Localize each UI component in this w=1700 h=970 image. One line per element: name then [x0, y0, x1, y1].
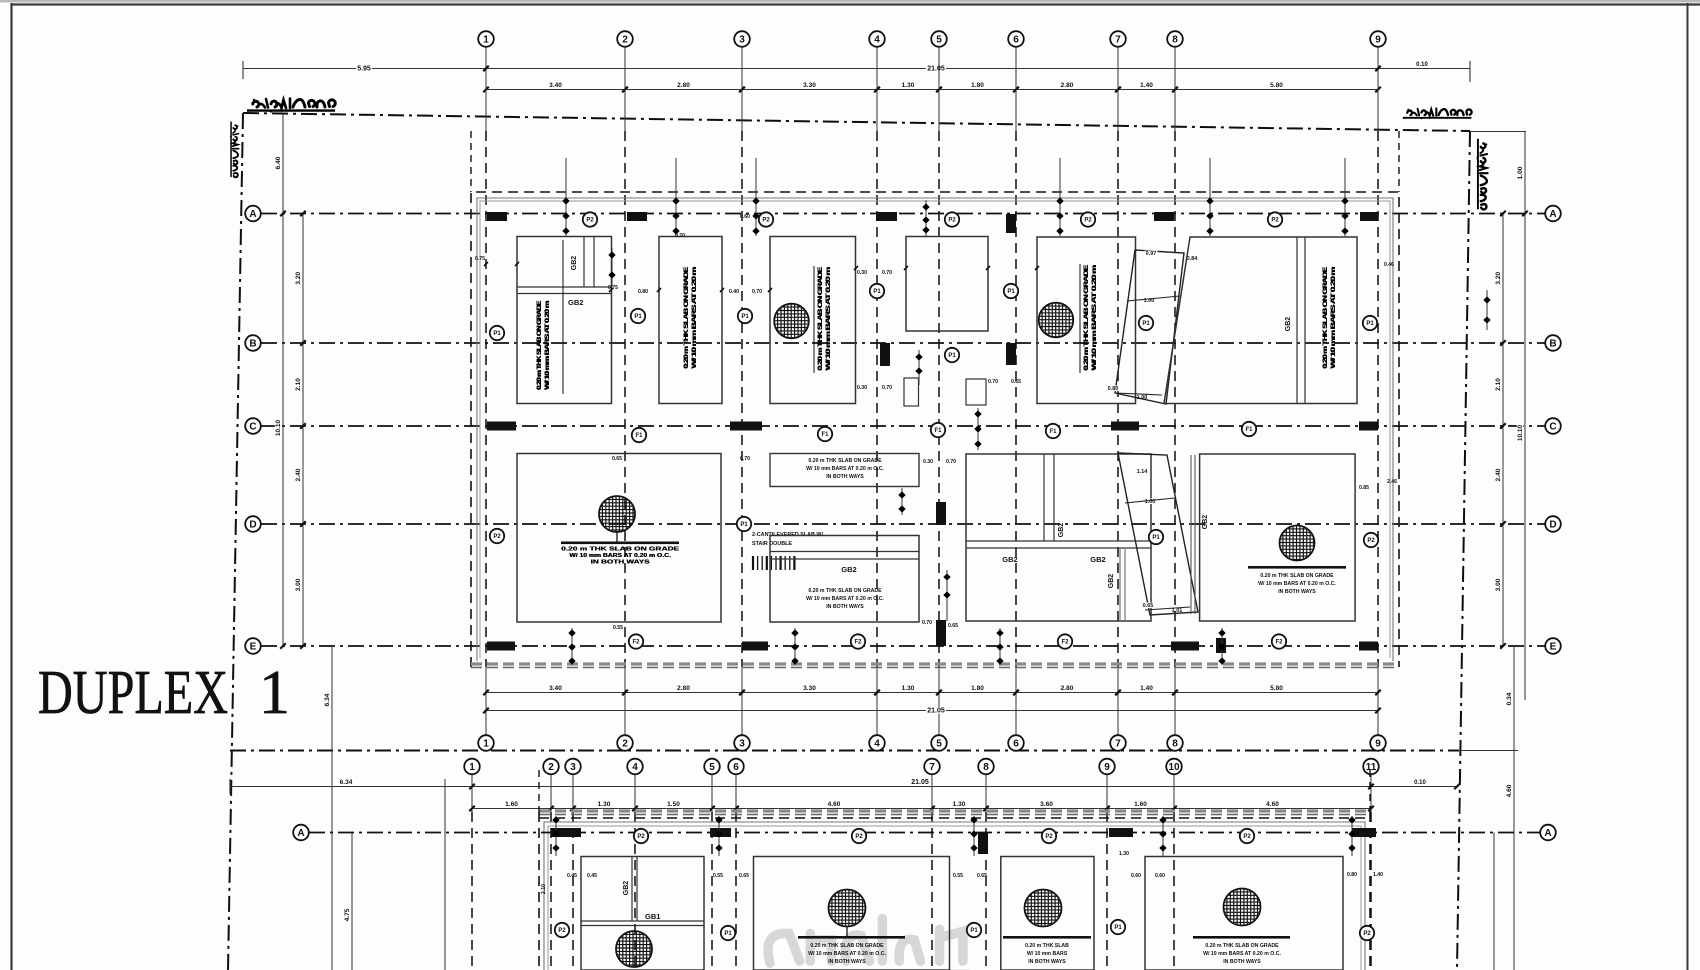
svg-text:0.20 m THK SLAB ON GRADE: 0.20 m THK SLAB ON GRADE	[817, 266, 824, 370]
left dim text 10.10	[275, 419, 282, 438]
svg-text:0.70: 0.70	[882, 385, 892, 391]
L1 column hatch	[599, 496, 635, 532]
svg-text:2.80: 2.80	[1061, 82, 1074, 89]
tick stacks plan1 bottom	[571, 628, 573, 665]
svg-text:5: 5	[709, 762, 715, 773]
svg-text:10.10: 10.10	[275, 419, 282, 436]
svg-text:0.70: 0.70	[752, 289, 762, 295]
plan2 top gray dashed band	[539, 809, 1370, 812]
page frame left border	[10, 3, 12, 970]
R6 note column	[1322, 266, 1337, 369]
svg-text:0.20 m THK SLAB ON GRADE: 0.20 m THK SLAB ON GRADE	[808, 588, 882, 594]
R1 beam GB2 horizontal	[517, 286, 611, 288]
dim text 21.05 bottom	[926, 707, 946, 714]
svg-text:0.55: 0.55	[713, 873, 723, 879]
svg-text:F1: F1	[821, 432, 829, 438]
stair inner line	[1127, 296, 1180, 301]
vertical grid lines bottom plan	[471, 775, 473, 813]
svg-text:21.05: 21.05	[911, 779, 929, 786]
footing RD6	[1200, 454, 1356, 621]
horizontal grids A-E with bubbles	[261, 213, 1545, 215]
svg-text:4.60: 4.60	[1506, 784, 1513, 797]
svg-text:21.05: 21.05	[927, 708, 945, 715]
plan1 bottom gray dashed band	[471, 662, 1399, 665]
svg-text:0.60: 0.60	[1155, 214, 1165, 220]
wall marks on grid C	[487, 422, 516, 431]
svg-text:1.80: 1.80	[971, 82, 984, 89]
svg-text:P1: P1	[1366, 321, 1374, 327]
footing F4b	[1145, 857, 1343, 970]
svg-text:2.40: 2.40	[1495, 468, 1502, 481]
svg-text:GB2: GB2	[1002, 555, 1017, 564]
tick stacks plan2 top	[555, 816, 557, 856]
svg-text:3.30: 3.30	[803, 685, 816, 692]
svg-text:P2: P2	[1363, 931, 1371, 937]
svg-text:0.30: 0.30	[923, 459, 933, 465]
footing R6	[1164, 237, 1357, 404]
svg-text:3: 3	[739, 739, 745, 750]
R5 note line	[1079, 264, 1081, 373]
svg-text:P1: P1	[740, 522, 748, 528]
F2 bubbles on grid E	[629, 634, 643, 648]
small ticks plan1	[484, 262, 488, 266]
footing R2	[659, 237, 722, 404]
svg-text:3.30: 3.30	[803, 82, 816, 89]
svg-text:2.80: 2.80	[677, 82, 690, 89]
svg-text:F1: F1	[635, 433, 643, 439]
slant2 dims	[1136, 469, 1149, 475]
footing R4	[906, 237, 988, 332]
footing R1	[517, 237, 612, 404]
svg-text:6.34: 6.34	[324, 693, 331, 706]
svg-text:GB2: GB2	[623, 881, 630, 896]
svg-text:0.45: 0.45	[587, 873, 597, 879]
svg-text:GB2: GB2	[1108, 574, 1115, 589]
svg-text:GB2: GB2	[1090, 555, 1105, 564]
svg-text:0.55: 0.55	[953, 873, 963, 879]
svg-text:0.46: 0.46	[1384, 262, 1394, 268]
R2 note column	[683, 266, 698, 369]
svg-text:P1: P1	[1007, 289, 1015, 295]
svg-text:1: 1	[483, 35, 489, 46]
svg-text:7: 7	[929, 762, 935, 773]
grid bubbles row2 1-11	[464, 759, 480, 775]
svg-text:3.00: 3.00	[1495, 578, 1502, 591]
svg-text:2.10: 2.10	[295, 378, 302, 391]
svg-text:5.80: 5.80	[1270, 685, 1283, 692]
svg-text:0.85: 0.85	[1359, 485, 1369, 491]
footing R3	[770, 237, 856, 404]
svg-text:0.75: 0.75	[475, 256, 485, 262]
arabic label right rotated	[1476, 139, 1487, 210]
plan1 inner double line	[477, 198, 1393, 661]
svg-text:0.20 m THK SLAB ON GRADE: 0.20 m THK SLAB ON GRADE	[1083, 264, 1090, 370]
right dim seg texts	[1495, 271, 1502, 286]
svg-text:8: 8	[983, 762, 989, 773]
R5 column hatch	[1039, 303, 1074, 338]
P2 bubbles plan2 A	[634, 829, 648, 843]
svg-text:6.34: 6.34	[340, 779, 353, 786]
svg-text:P1: P1	[1152, 535, 1160, 541]
svg-text:0.20 m THK SLAB ON GRADE: 0.20 m THK SLAB ON GRADE	[1322, 266, 1329, 368]
svg-text:4: 4	[874, 35, 880, 46]
overall dim line top	[243, 68, 1470, 70]
svg-text:IN BOTH WAYS: IN BOTH WAYS	[826, 474, 864, 480]
segment dim line bottom	[486, 692, 1378, 694]
left dim seg texts	[295, 271, 302, 286]
right dim line upper	[1524, 132, 1526, 701]
right dim text 10.10	[1517, 424, 1524, 443]
svg-text:GB2: GB2	[1285, 317, 1292, 332]
svg-text:0.20 m THK SLAB ON GRADE: 0.20 m THK SLAB ON GRADE	[810, 943, 884, 949]
note rect top	[770, 454, 919, 487]
footing F2b	[754, 857, 950, 970]
svg-text:3.40: 3.40	[549, 685, 562, 692]
2x2 vertical gray	[1119, 548, 1121, 621]
svg-text:4.75: 4.75	[344, 908, 351, 921]
overall dim line bottom	[486, 710, 1378, 712]
svg-text:3: 3	[570, 762, 576, 773]
svg-text:D: D	[249, 520, 256, 531]
F3b note	[1003, 936, 1091, 939]
RD6 note	[1248, 566, 1346, 569]
svg-text:0.60: 0.60	[1155, 873, 1165, 879]
svg-text:0.80: 0.80	[638, 289, 648, 295]
svg-text:2: 2	[548, 762, 554, 773]
svg-text:1.40: 1.40	[1373, 872, 1383, 878]
footing F1b	[581, 857, 704, 970]
svg-text:0.70: 0.70	[946, 459, 956, 465]
plan2 grid A line	[309, 832, 1540, 834]
property boundary mid horizontal	[230, 750, 1459, 752]
svg-text:4: 4	[874, 739, 880, 750]
svg-text:0.40: 0.40	[729, 289, 739, 295]
svg-text:6: 6	[733, 762, 739, 773]
plan1 outline dashed	[471, 192, 1399, 667]
dim text 5.95	[356, 65, 372, 72]
R5 note column	[1083, 264, 1098, 371]
svg-text:0.97: 0.97	[1146, 251, 1157, 257]
right E-boundary dim line	[1513, 646, 1515, 970]
F4b note	[1193, 936, 1290, 939]
2x2 horizontal beams	[966, 540, 1151, 542]
right dim ticks	[1500, 211, 1506, 217]
F2b stem	[846, 927, 848, 937]
svg-text:P1: P1	[493, 331, 501, 337]
dim text 21.05 plan2	[910, 778, 930, 785]
arabic label top-right	[1403, 108, 1472, 119]
svg-text:0.55: 0.55	[613, 625, 623, 631]
page frame right border	[1687, 3, 1689, 970]
P bubbles row D	[490, 529, 504, 543]
F1b beams	[631, 857, 633, 922]
R3 column hatch	[774, 304, 809, 339]
svg-text:1.00: 1.00	[1517, 166, 1524, 179]
svg-text:0.60: 0.60	[1131, 873, 1141, 879]
P1 bubbles row B	[490, 326, 504, 340]
svg-text:0.65: 0.65	[1011, 379, 1021, 385]
svg-text:E: E	[250, 642, 257, 653]
grid bubbles top row 1-9	[478, 31, 494, 47]
plan2 A bubbles	[293, 825, 309, 841]
svg-text:IN BOTH WAYS: IN BOTH WAYS	[1028, 959, 1066, 965]
svg-text:6: 6	[1013, 35, 1019, 46]
svg-text:10: 10	[1168, 762, 1180, 773]
svg-text:IN BOTH WAYS: IN BOTH WAYS	[828, 959, 866, 965]
svg-text:6: 6	[1013, 739, 1019, 750]
svg-text:9: 9	[1375, 739, 1381, 750]
svg-text:GB1: GB1	[645, 912, 660, 921]
L1 stem	[616, 532, 618, 542]
svg-text:P2: P2	[762, 218, 770, 224]
left dim chain A-E	[302, 214, 304, 647]
svg-text:A: A	[1549, 209, 1556, 220]
overall dim line plan2	[230, 786, 1457, 788]
svg-text:7: 7	[1115, 739, 1121, 750]
svg-text:0.70: 0.70	[988, 379, 998, 385]
left E-boundary dim line	[331, 646, 333, 970]
dim text 21.05 top	[926, 65, 946, 72]
svg-text:E: E	[1550, 642, 1557, 653]
svg-text:W/ 10 mm BARS: W/ 10 mm BARS	[1027, 951, 1068, 957]
svg-text:0.65: 0.65	[948, 623, 958, 629]
svg-text:0.65: 0.65	[612, 456, 622, 462]
svg-text:2: 2	[622, 739, 628, 750]
segment dim line top	[486, 89, 1378, 91]
wall marks on grid B	[1006, 343, 1016, 365]
svg-text:0.34: 0.34	[1506, 692, 1513, 705]
svg-text:W/ 10 mm BARS AT 0.20 m: W/ 10 mm BARS AT 0.20 m	[825, 266, 832, 370]
footing F3b	[1001, 857, 1094, 970]
svg-text:11: 11	[1366, 762, 1377, 773]
stair dim 1.00a	[1143, 298, 1156, 304]
svg-text:W/ 10 mm BARS AT 0.20 m: W/ 10 mm BARS AT 0.20 m	[544, 300, 551, 389]
svg-text:1: 1	[483, 739, 489, 750]
svg-text:P2: P2	[948, 218, 956, 224]
svg-text:P2: P2	[493, 534, 501, 540]
svg-text:B: B	[1549, 339, 1556, 350]
svg-text:IN BOTH WAYS: IN BOTH WAYS	[826, 604, 864, 610]
svg-text:1.30: 1.30	[1119, 851, 1129, 857]
small rect below R4b	[966, 379, 986, 405]
plan1 right edge extension	[1398, 131, 1400, 192]
svg-text:8: 8	[1172, 35, 1178, 46]
ticks line68	[483, 66, 489, 72]
svg-text:F2: F2	[1275, 640, 1283, 646]
svg-text:0.30: 0.30	[857, 270, 867, 276]
svg-text:3.60: 3.60	[1040, 801, 1053, 808]
svg-text:W/ 10 mm BARS AT 0.20 m: W/ 10 mm BARS AT 0.20 m	[1091, 264, 1098, 370]
left lower dim line	[351, 833, 353, 970]
F4b column hatch	[1224, 889, 1261, 926]
R6 beam verticals	[1296, 237, 1298, 403]
property boundary left	[228, 113, 243, 970]
svg-text:P1: P1	[634, 314, 642, 320]
svg-text:A: A	[297, 828, 304, 839]
svg-text:F2: F2	[854, 640, 862, 646]
svg-text:5: 5	[936, 739, 942, 750]
svg-text:P1: P1	[948, 353, 956, 359]
svg-text:2.80: 2.80	[677, 685, 690, 692]
F2b note	[798, 936, 905, 939]
svg-text:0.80: 0.80	[1347, 872, 1357, 878]
footing R5	[1037, 237, 1136, 404]
grid bubbles bottom row 1-9	[478, 735, 494, 751]
plan2 inner double	[544, 822, 1365, 970]
svg-text:5: 5	[936, 35, 942, 46]
wall marks plan2 grid A	[551, 828, 581, 837]
svg-text:4.60: 4.60	[1266, 801, 1279, 808]
svg-text:0.65: 0.65	[1143, 603, 1154, 609]
svg-text:0.20 m THK SLAB ON GRADE: 0.20 m THK SLAB ON GRADE	[683, 266, 690, 368]
svg-text:1.01: 1.01	[1172, 608, 1183, 614]
svg-text:F1: F1	[1049, 429, 1057, 435]
plan2 outline dashed	[539, 812, 1370, 970]
page frame top gray band	[0, 0, 1700, 3]
svg-text:1.40: 1.40	[1140, 82, 1153, 89]
P bubbles plan2 mid	[555, 923, 569, 937]
wall marks on grid A	[487, 212, 507, 221]
svg-text:3.00: 3.00	[295, 578, 302, 591]
svg-text:0.10: 0.10	[1416, 62, 1428, 68]
svg-text:1: 1	[469, 762, 475, 773]
svg-text:0.20 m THK SLAB: 0.20 m THK SLAB	[1025, 943, 1069, 949]
stair hatch marks	[752, 556, 754, 570]
svg-text:2.10: 2.10	[541, 884, 547, 894]
right lower dim line	[1493, 833, 1495, 970]
segment dim line plan2	[472, 808, 1371, 810]
stair slant band lower	[1118, 453, 1198, 615]
svg-text:6.40: 6.40	[275, 156, 282, 169]
svg-text:2.10: 2.10	[1495, 378, 1502, 391]
svg-text:1.30: 1.30	[953, 801, 966, 808]
svg-text:F2: F2	[632, 640, 640, 646]
svg-text:0.45: 0.45	[567, 873, 577, 879]
svg-text:3.40: 3.40	[549, 82, 562, 89]
R3 note column	[817, 266, 832, 371]
svg-text:0.70: 0.70	[882, 270, 892, 276]
svg-text:4.60: 4.60	[828, 801, 841, 808]
watermark khotwat	[766, 919, 970, 970]
svg-text:5.95: 5.95	[357, 66, 371, 73]
svg-text:P1: P1	[741, 314, 749, 320]
F3b column hatch	[1025, 890, 1062, 927]
svg-text:W/ 10 mm BARS AT 0.20 m: W/ 10 mm BARS AT 0.20 m	[1330, 266, 1337, 368]
footing L1 big	[517, 454, 721, 623]
svg-text:P2: P2	[1084, 218, 1092, 224]
dim text 6.34 b	[338, 779, 353, 786]
right dim chain A-E	[1502, 214, 1504, 647]
stair dim 0.80	[1107, 386, 1120, 392]
svg-text:W/ 10 mm BARS AT 0.20 m O.C.: W/ 10 mm BARS AT 0.20 m O.C.	[1203, 951, 1281, 957]
right corner dim line	[1470, 131, 1526, 133]
svg-text:1.40: 1.40	[1140, 685, 1153, 692]
svg-text:F1: F1	[934, 428, 942, 434]
plan1 left edge extension	[470, 131, 472, 192]
svg-text:C: C	[1549, 422, 1556, 433]
svg-text:W/ 10 mm BARS AT 0.20 m O.C.: W/ 10 mm BARS AT 0.20 m O.C.	[806, 466, 884, 472]
plan2 left edge extension	[538, 770, 540, 812]
svg-text:0.84: 0.84	[1187, 256, 1199, 262]
svg-text:1.14: 1.14	[1137, 469, 1149, 475]
svg-text:P1: P1	[1114, 925, 1122, 931]
svg-text:1.30: 1.30	[902, 685, 915, 692]
P2 bubbles on grid A	[583, 212, 597, 226]
svg-text:1.50: 1.50	[667, 801, 680, 808]
tick stacks plan1 top	[565, 158, 567, 236]
svg-text:P2: P2	[1243, 834, 1251, 840]
wall mark grid5 D	[936, 502, 946, 525]
svg-text:0.65: 0.65	[739, 873, 749, 879]
stair dim 0.97	[1145, 251, 1158, 257]
footing GB2 block D	[770, 536, 919, 623]
svg-text:B: B	[249, 339, 256, 350]
svg-text:1.00: 1.00	[1137, 395, 1148, 401]
svg-text:P2: P2	[855, 834, 863, 840]
svg-text:P2: P2	[586, 218, 594, 224]
svg-text:W/ 10 mm BARS AT 0.20 m O.C.: W/ 10 mm BARS AT 0.20 m O.C.	[1258, 581, 1336, 587]
svg-text:1: 1	[259, 659, 290, 727]
svg-text:P1: P1	[970, 928, 978, 934]
svg-text:0.20 m THK SLAB ON GRADE: 0.20 m THK SLAB ON GRADE	[536, 300, 543, 390]
svg-text:GB2: GB2	[841, 565, 856, 574]
GB2 D beams	[770, 551, 919, 553]
svg-text:P2: P2	[637, 834, 645, 840]
page frame border	[11, 3, 1700, 5]
svg-text:D: D	[1549, 520, 1556, 531]
svg-text:0.70: 0.70	[740, 456, 750, 462]
svg-text:GB2: GB2	[571, 256, 578, 271]
wall marks on grid E	[487, 642, 515, 651]
svg-text:P2: P2	[1271, 218, 1279, 224]
RD6 column hatch	[1280, 526, 1315, 561]
F1b column hatch	[616, 931, 652, 967]
svg-text:W/ 10 mm BARS AT 0.20 m O.C.: W/ 10 mm BARS AT 0.20 m O.C.	[806, 596, 884, 602]
svg-text:5.80: 5.80	[1270, 82, 1283, 89]
svg-text:0.80: 0.80	[1108, 386, 1119, 392]
left dim line upper	[282, 113, 284, 646]
footing block 2x2	[966, 454, 1151, 621]
svg-text:A: A	[249, 209, 256, 220]
R1 note column	[536, 300, 551, 390]
svg-text:2: 2	[622, 35, 628, 46]
svg-text:GB2: GB2	[1202, 515, 1209, 530]
svg-text:IN BOTH WAYS: IN BOTH WAYS	[1223, 959, 1261, 965]
svg-text:P2: P2	[1367, 538, 1375, 544]
tick stacks inner	[611, 248, 613, 287]
slant2 inner	[1125, 498, 1175, 503]
R1 beam GB2 vertical	[583, 237, 585, 288]
svg-text:0.70: 0.70	[922, 620, 932, 626]
svg-text:9: 9	[1375, 35, 1381, 46]
svg-text:F2: F2	[1061, 640, 1069, 646]
svg-text:P1: P1	[724, 931, 732, 937]
svg-text:0.65: 0.65	[977, 873, 987, 879]
mid boundary right extension	[1459, 750, 1518, 752]
svg-text:1.60: 1.60	[505, 801, 518, 808]
plan2 right edge extension	[1369, 770, 1371, 812]
svg-text:F1: F1	[1245, 427, 1253, 433]
svg-text:GB2: GB2	[568, 298, 583, 307]
svg-text:9: 9	[1104, 762, 1110, 773]
F1 bubbles row C	[632, 428, 646, 442]
svg-text:7: 7	[1115, 35, 1121, 46]
svg-text:0.75: 0.75	[608, 285, 618, 291]
L1 note	[561, 542, 679, 545]
svg-text:21.05: 21.05	[927, 66, 945, 73]
svg-text:8: 8	[1172, 739, 1178, 750]
svg-text:IN BOTH WAYS: IN BOTH WAYS	[591, 560, 651, 566]
